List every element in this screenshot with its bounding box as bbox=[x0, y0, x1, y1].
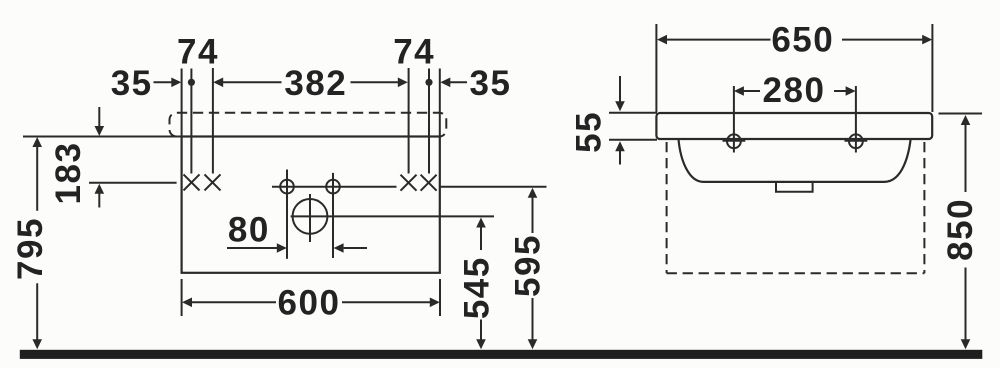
svg-text:595: 595 bbox=[508, 234, 547, 297]
650 extension line left bbox=[655, 24, 657, 112]
small faucet circle right bbox=[326, 180, 340, 194]
dimension 382 bbox=[213, 64, 408, 103]
dimension label 74 right bbox=[393, 33, 435, 72]
horizontal line through small circles bbox=[272, 186, 397, 188]
svg-text:545: 545 bbox=[458, 256, 497, 319]
large drain circle bbox=[293, 199, 328, 234]
svg-text:600: 600 bbox=[278, 284, 341, 323]
svg-text:74: 74 bbox=[393, 33, 435, 72]
dimension 850 bbox=[939, 114, 983, 350]
left edge extension line bbox=[181, 69, 183, 137]
faucet hole center line left B bbox=[212, 68, 214, 174]
svg-text:382: 382 bbox=[284, 64, 347, 103]
280 extension / crosshair vertical left bbox=[733, 86, 735, 153]
crosshair vertical through small circle right bbox=[332, 173, 334, 258]
fixing hole circle right (side view) bbox=[849, 134, 863, 148]
dimension 795 bbox=[11, 137, 50, 349]
basin bowl profile bbox=[679, 139, 911, 182]
svg-text:55: 55 bbox=[570, 111, 609, 153]
crosshair horizontal right circle bbox=[845, 140, 868, 142]
svg-text:850: 850 bbox=[941, 198, 980, 261]
floor line bbox=[20, 350, 983, 359]
dimension 80 bbox=[227, 211, 367, 253]
hole marker dot left bbox=[188, 79, 195, 86]
X mark 4 bbox=[421, 175, 437, 191]
svg-text:795: 795 bbox=[11, 217, 50, 280]
faucet hole center line right B bbox=[428, 69, 430, 174]
dimension 595 bbox=[508, 188, 547, 349]
dimension label 74 left bbox=[177, 33, 219, 72]
dashed pedestal box right edge bbox=[923, 142, 925, 273]
dimension 650 bbox=[657, 21, 932, 60]
horizontal line through large circle to 545 bbox=[291, 215, 494, 217]
svg-text:74: 74 bbox=[177, 33, 219, 72]
horizontal line right of cabinet to 595 bbox=[440, 186, 547, 188]
dimension 280 bbox=[734, 71, 856, 110]
crosshair horizontal left circle bbox=[723, 140, 746, 142]
dimension 183 bbox=[49, 107, 177, 208]
dashed basin rim (front view) bbox=[170, 113, 447, 137]
dimension 545 bbox=[458, 218, 497, 350]
svg-text:650: 650 bbox=[771, 21, 834, 60]
hole marker dot right bbox=[425, 79, 432, 86]
svg-text:183: 183 bbox=[49, 142, 88, 205]
crosshair vertical through small circle left bbox=[286, 170, 288, 259]
dimension 35 right bbox=[440, 64, 511, 103]
top reference extension line bbox=[23, 136, 182, 138]
drain outlet bbox=[776, 182, 813, 192]
small faucet circle left bbox=[280, 180, 294, 194]
cabinet front outline bbox=[182, 137, 440, 273]
dashed pedestal box bottom edge bbox=[667, 272, 925, 274]
X mark 3 bbox=[401, 175, 417, 191]
crosshair vertical through large circle bbox=[309, 194, 311, 242]
faucet hole center line left A bbox=[190, 69, 192, 174]
svg-text:35: 35 bbox=[470, 64, 512, 103]
dimension 35 left bbox=[111, 64, 182, 103]
650 extension line right bbox=[931, 24, 933, 112]
svg-text:35: 35 bbox=[111, 64, 153, 103]
faucet hole center line right A bbox=[408, 68, 410, 174]
X mark 2 bbox=[205, 174, 221, 190]
washbasin slab (side view) bbox=[656, 113, 932, 139]
dimension 55 bbox=[570, 76, 658, 165]
dimension 600 bbox=[182, 279, 440, 323]
svg-text:280: 280 bbox=[763, 71, 826, 110]
X mark 1 bbox=[184, 174, 200, 190]
fixing hole circle left (side view) bbox=[727, 134, 741, 148]
right edge extension line bbox=[439, 69, 441, 137]
svg-text:80: 80 bbox=[228, 211, 270, 250]
280 extension / crosshair vertical right bbox=[855, 86, 857, 153]
dashed pedestal box left edge bbox=[666, 142, 668, 273]
